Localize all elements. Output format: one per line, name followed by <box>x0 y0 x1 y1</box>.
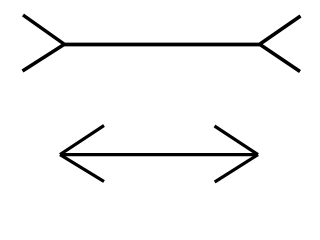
top-right lower fin <box>260 45 300 72</box>
top Muller-Lyer line (fins-out) horizontal shaft <box>63 43 260 47</box>
bottom double-headed arrow shaft <box>60 153 258 156</box>
bottom-right arrowhead upper fin <box>215 126 259 155</box>
top-left upper fin <box>23 15 64 44</box>
top-left lower fin <box>23 45 65 72</box>
top-right upper fin <box>260 16 301 44</box>
bottom-left arrowhead upper fin <box>60 126 104 155</box>
bottom-right arrowhead lower fin <box>215 155 258 182</box>
bottom-left arrowhead lower fin <box>60 155 104 182</box>
